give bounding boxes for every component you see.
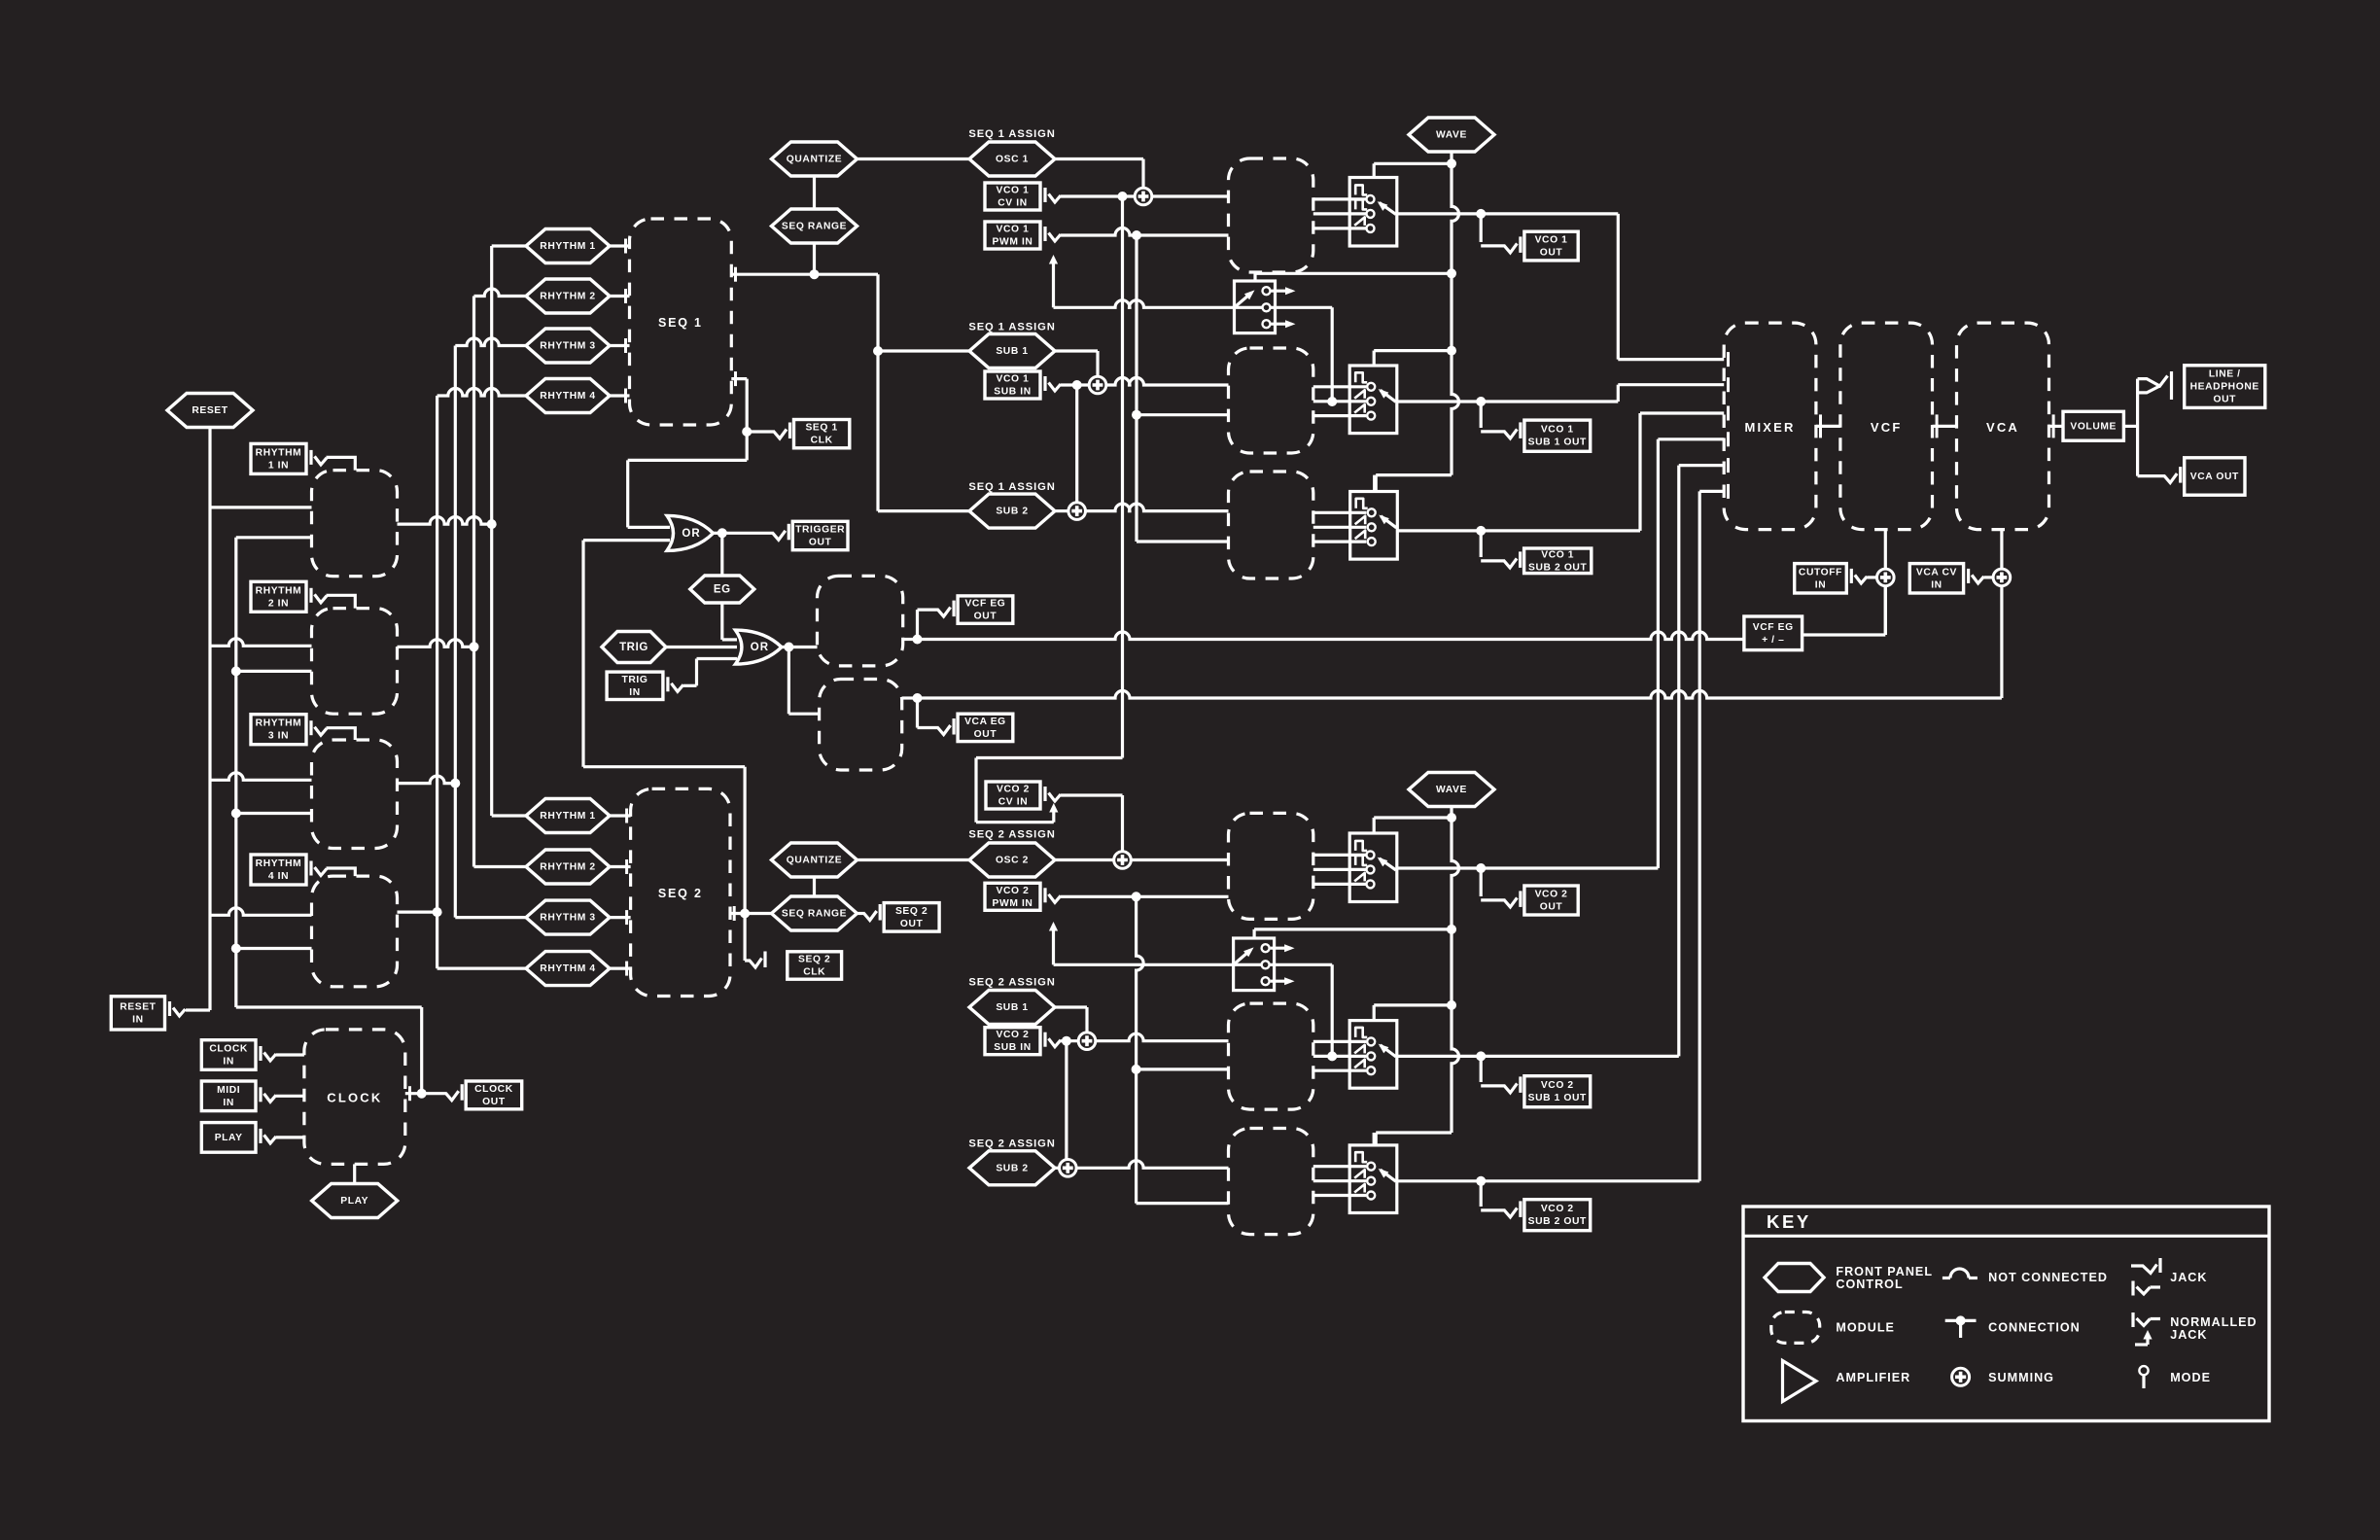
svg-text:IN: IN bbox=[629, 687, 641, 698]
svg-text:VCO 2: VCO 2 bbox=[1535, 890, 1568, 900]
svg-text:CONTROL: CONTROL bbox=[1836, 1277, 1903, 1291]
svg-text:VCO 1: VCO 1 bbox=[1535, 235, 1568, 246]
svg-text:VCF EG: VCF EG bbox=[1753, 622, 1794, 633]
svg-text:OR: OR bbox=[751, 642, 769, 653]
svg-text:RHYTHM: RHYTHM bbox=[256, 447, 302, 458]
svg-text:CV IN: CV IN bbox=[997, 198, 1027, 209]
svg-text:SUB 1 OUT: SUB 1 OUT bbox=[1528, 1093, 1587, 1103]
svg-text:IN: IN bbox=[223, 1057, 234, 1067]
svg-text:JACK: JACK bbox=[2170, 1271, 2207, 1284]
svg-text:CLK: CLK bbox=[811, 436, 833, 446]
svg-text:RHYTHM: RHYTHM bbox=[256, 718, 302, 729]
svg-text:QUANTIZE: QUANTIZE bbox=[787, 856, 842, 866]
svg-text:MIXER: MIXER bbox=[1744, 420, 1795, 435]
svg-text:OSC 2: OSC 2 bbox=[996, 856, 1029, 866]
svg-text:SEQ 1: SEQ 1 bbox=[805, 423, 837, 434]
svg-text:VCO 1: VCO 1 bbox=[997, 374, 1030, 385]
svg-text:CLOCK: CLOCK bbox=[474, 1084, 513, 1095]
svg-text:VCO 1: VCO 1 bbox=[997, 225, 1030, 235]
svg-text:SUB 2: SUB 2 bbox=[996, 1163, 1028, 1173]
svg-text:TRIG: TRIG bbox=[619, 642, 648, 653]
svg-text:JACK: JACK bbox=[2170, 1328, 2207, 1342]
svg-text:SEQ 2 ASSIGN: SEQ 2 ASSIGN bbox=[968, 977, 1055, 989]
svg-text:RHYTHM 3: RHYTHM 3 bbox=[540, 341, 595, 352]
svg-text:SUB 1: SUB 1 bbox=[996, 346, 1028, 357]
svg-text:SEQ 2 ASSIGN: SEQ 2 ASSIGN bbox=[968, 829, 1055, 841]
svg-text:AMPLIFIER: AMPLIFIER bbox=[1836, 1371, 1910, 1384]
svg-text:RHYTHM 3: RHYTHM 3 bbox=[540, 913, 595, 924]
svg-text:RHYTHM 2: RHYTHM 2 bbox=[540, 292, 595, 302]
svg-text:1 IN: 1 IN bbox=[268, 460, 289, 471]
svg-text:OUT: OUT bbox=[809, 538, 832, 548]
svg-text:LINE /: LINE / bbox=[2209, 369, 2241, 380]
svg-text:IN: IN bbox=[132, 1014, 144, 1025]
svg-text:SUB 2 OUT: SUB 2 OUT bbox=[1528, 562, 1587, 573]
svg-text:SEQ 2 ASSIGN: SEQ 2 ASSIGN bbox=[968, 1137, 1055, 1149]
svg-text:RHYTHM 2: RHYTHM 2 bbox=[540, 862, 595, 873]
svg-text:VCO 2: VCO 2 bbox=[997, 785, 1030, 795]
svg-text:VCF: VCF bbox=[1871, 420, 1903, 435]
svg-text:IN: IN bbox=[1815, 579, 1827, 590]
svg-text:CLK: CLK bbox=[803, 967, 825, 978]
svg-text:SUB 2: SUB 2 bbox=[996, 507, 1028, 517]
svg-text:VCA OUT: VCA OUT bbox=[2190, 472, 2239, 482]
svg-text:CONNECTION: CONNECTION bbox=[1988, 1321, 2081, 1335]
svg-text:VCO 1: VCO 1 bbox=[997, 186, 1030, 196]
svg-text:SUB 1 OUT: SUB 1 OUT bbox=[1528, 437, 1587, 448]
svg-text:RESET: RESET bbox=[120, 1001, 156, 1012]
svg-text:PLAY: PLAY bbox=[340, 1196, 368, 1207]
svg-text:VCO 2: VCO 2 bbox=[1541, 1080, 1574, 1091]
svg-text:RHYTHM 4: RHYTHM 4 bbox=[540, 963, 595, 974]
svg-text:RHYTHM 4: RHYTHM 4 bbox=[540, 391, 595, 402]
svg-text:VCA CV: VCA CV bbox=[1916, 567, 1957, 577]
svg-text:+ / –: + / – bbox=[1762, 635, 1784, 646]
svg-text:IN: IN bbox=[223, 1098, 234, 1108]
svg-text:QUANTIZE: QUANTIZE bbox=[787, 155, 842, 165]
svg-text:MODE: MODE bbox=[2170, 1371, 2211, 1384]
svg-text:SEQ 2: SEQ 2 bbox=[895, 906, 927, 917]
svg-text:RHYTHM 1: RHYTHM 1 bbox=[540, 811, 595, 822]
svg-text:CUTOFF: CUTOFF bbox=[1799, 567, 1842, 577]
svg-text:WAVE: WAVE bbox=[1436, 785, 1467, 795]
svg-text:SEQ 2: SEQ 2 bbox=[658, 887, 703, 900]
svg-text:SUB IN: SUB IN bbox=[994, 1042, 1032, 1053]
svg-text:SEQ 2: SEQ 2 bbox=[798, 955, 830, 965]
svg-text:RHYTHM 1: RHYTHM 1 bbox=[540, 241, 595, 252]
svg-text:RHYTHM: RHYTHM bbox=[256, 858, 302, 869]
svg-text:SUB 2 OUT: SUB 2 OUT bbox=[1528, 1216, 1587, 1227]
svg-text:VCO 1: VCO 1 bbox=[1541, 549, 1574, 560]
svg-text:CV IN: CV IN bbox=[998, 797, 1028, 808]
svg-text:RHYTHM: RHYTHM bbox=[256, 585, 302, 596]
svg-text:OSC 1: OSC 1 bbox=[996, 155, 1029, 165]
svg-text:SEQ 1 ASSIGN: SEQ 1 ASSIGN bbox=[968, 481, 1055, 493]
svg-text:SEQ 1 ASSIGN: SEQ 1 ASSIGN bbox=[968, 322, 1055, 333]
svg-text:PLAY: PLAY bbox=[215, 1133, 243, 1143]
svg-text:VOLUME: VOLUME bbox=[2070, 421, 2117, 432]
svg-text:KEY: KEY bbox=[1767, 1211, 1811, 1232]
svg-text:PWM IN: PWM IN bbox=[993, 898, 1033, 909]
svg-text:PWM IN: PWM IN bbox=[993, 237, 1033, 248]
svg-text:TRIGGER: TRIGGER bbox=[795, 525, 845, 536]
svg-text:MIDI: MIDI bbox=[217, 1085, 240, 1096]
svg-text:SEQ 1 ASSIGN: SEQ 1 ASSIGN bbox=[968, 128, 1055, 140]
svg-text:4 IN: 4 IN bbox=[268, 871, 289, 882]
svg-text:SEQ RANGE: SEQ RANGE bbox=[782, 909, 847, 920]
svg-text:2 IN: 2 IN bbox=[268, 598, 289, 609]
svg-text:3 IN: 3 IN bbox=[268, 731, 289, 742]
svg-text:VCF EG: VCF EG bbox=[964, 599, 1005, 610]
svg-text:OUT: OUT bbox=[2213, 395, 2236, 405]
svg-text:VCO 1: VCO 1 bbox=[1541, 425, 1574, 436]
svg-text:SUB 1: SUB 1 bbox=[996, 1002, 1028, 1013]
svg-text:OUT: OUT bbox=[482, 1097, 506, 1107]
svg-text:OR: OR bbox=[682, 528, 700, 540]
svg-text:MODULE: MODULE bbox=[1836, 1321, 1895, 1335]
svg-text:RESET: RESET bbox=[192, 405, 227, 416]
svg-text:NOT CONNECTED: NOT CONNECTED bbox=[1988, 1271, 2108, 1284]
svg-text:VCA: VCA bbox=[1986, 420, 2019, 435]
svg-text:VCO 2: VCO 2 bbox=[997, 886, 1030, 896]
svg-text:SUMMING: SUMMING bbox=[1988, 1371, 2054, 1384]
svg-text:HEADPHONE: HEADPHONE bbox=[2190, 382, 2259, 393]
svg-text:CLOCK: CLOCK bbox=[327, 1091, 382, 1105]
svg-text:EG: EG bbox=[714, 584, 731, 596]
svg-text:CLOCK: CLOCK bbox=[209, 1044, 248, 1055]
svg-text:TRIG: TRIG bbox=[622, 675, 648, 685]
svg-text:OUT: OUT bbox=[1540, 248, 1563, 259]
svg-text:OUT: OUT bbox=[974, 729, 997, 740]
svg-text:VCA EG: VCA EG bbox=[964, 717, 1006, 727]
svg-text:SEQ 1: SEQ 1 bbox=[658, 316, 703, 330]
svg-text:IN: IN bbox=[1931, 579, 1942, 590]
svg-text:SEQ RANGE: SEQ RANGE bbox=[782, 222, 847, 232]
svg-text:VCO 2: VCO 2 bbox=[997, 1030, 1030, 1040]
svg-text:VCO 2: VCO 2 bbox=[1541, 1204, 1574, 1214]
svg-text:SUB IN: SUB IN bbox=[994, 387, 1032, 398]
svg-text:WAVE: WAVE bbox=[1436, 130, 1467, 141]
svg-text:OUT: OUT bbox=[900, 919, 924, 929]
svg-text:OUT: OUT bbox=[974, 612, 997, 622]
svg-text:OUT: OUT bbox=[1540, 902, 1563, 913]
